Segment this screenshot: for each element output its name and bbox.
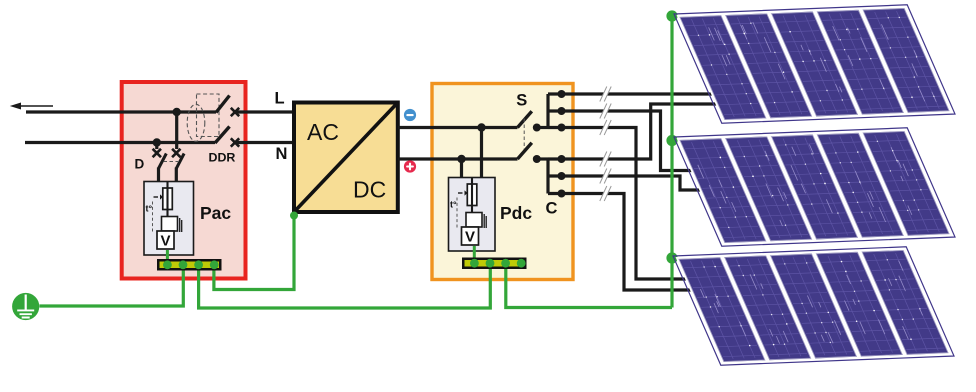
measurement unit Pdc (gray box with fuse and meters) <box>449 178 496 252</box>
breaker D left blade <box>159 154 167 169</box>
branch node string 3 minus <box>558 124 566 132</box>
AC protection enclosure (red box) <box>122 82 246 279</box>
svg-text:C: C <box>546 200 558 218</box>
breaker D right blade <box>176 154 184 169</box>
DDR mechanism (dashed rectangle) <box>197 94 220 137</box>
switch S blade <box>518 111 532 127</box>
DC protection enclosure (orange box) <box>432 84 573 280</box>
DC minus wire from inverter to switch S <box>398 126 518 129</box>
wire drop DC plus to Pdc <box>460 159 463 178</box>
earth wire Pac terminal to inverter chassis <box>214 216 294 290</box>
svg-text:L: L <box>275 90 285 108</box>
thermal sensor t deg with dashed link (Pac) <box>146 194 164 233</box>
fuse F (Pac) <box>163 182 173 219</box>
earth node PV array 1 frame <box>666 10 677 21</box>
terminal dot 2 (Pdc) <box>486 259 495 268</box>
breaker D right pole contact cross <box>172 149 180 157</box>
svg-text:S: S <box>516 92 527 110</box>
earth terminal block (Pac) <box>157 259 222 271</box>
svg-text:AC: AC <box>307 119 339 145</box>
voltmeter V (Pdc) <box>462 227 479 246</box>
branch node string 1 minus <box>558 90 566 98</box>
node on DC minus feeding Pdc <box>477 123 485 131</box>
svg-text:DC: DC <box>353 177 386 203</box>
switch link dashed (S to C) <box>523 119 525 151</box>
fuse F (Pdc) <box>467 178 477 215</box>
wire C node to plus bus <box>537 157 548 160</box>
wire string1 minus to PV array 1 <box>548 92 712 95</box>
earth wire Pac terminal to Pdc terminal <box>199 268 491 308</box>
measurement unit Pac (gray box with fuse and meters) <box>144 182 194 256</box>
wire N (neutral) from grid to DDR switch <box>25 141 215 144</box>
terminal dot 4 (Pac) <box>210 260 219 269</box>
DDR L-pole blade <box>216 96 230 113</box>
wire L from DDR to inverter <box>233 110 296 113</box>
wire drop DC minus to Pdc <box>480 128 483 179</box>
DC plus wire from inverter to switch C <box>398 157 518 160</box>
voltmeter V (Pac) <box>157 231 174 250</box>
wire break mark (//) <box>600 186 611 201</box>
breaker D left pole contact cross <box>153 149 161 157</box>
wire drop from L node to breaker D right pole <box>175 112 178 149</box>
PV array 1 (string of 5 solar modules) <box>674 5 955 123</box>
svg-text:Pdc: Pdc <box>500 203 532 223</box>
branch node string 1 plus <box>558 155 566 163</box>
wire break mark (//) <box>600 120 611 135</box>
PV array 3 (string of 5 solar modules) <box>673 247 954 365</box>
wire L (phase) from grid to DDR switch <box>26 110 216 113</box>
earth terminal block (Pdc) <box>462 258 527 270</box>
green lead V-meter to Pdc terminal <box>473 246 476 259</box>
wire string1 plus: right, up, to PV array 1 <box>548 104 718 159</box>
breaker D mechanical link (dashed) <box>164 161 180 163</box>
wire break mark (//) <box>600 87 611 102</box>
terminal dot 4 (Pdc) <box>517 259 526 268</box>
switch S output node <box>533 124 541 132</box>
grid direction arrow <box>10 103 53 110</box>
green lead V-meter to Pac terminal <box>166 250 169 262</box>
DC minus polarity badge <box>404 109 416 121</box>
wire string3 minus: right, down, to PV array 3 <box>548 128 688 280</box>
terminal dot 1 (Pac) <box>163 260 172 269</box>
wire break mark (//) <box>600 152 611 167</box>
wire string2 plus: right, down, to PV array 2 <box>548 176 702 190</box>
svg-text:N: N <box>276 145 288 163</box>
wire S node to minus bus <box>537 126 548 129</box>
earth wire from electrode to Pac terminal <box>40 268 184 306</box>
svg-text:t°: t° <box>450 200 457 210</box>
svg-text:D: D <box>135 157 145 172</box>
terminal dot 3 (Pac) <box>194 260 203 269</box>
DDR N-pole contact cross <box>231 138 239 146</box>
energy meter upper box (Pdc) <box>466 213 486 229</box>
terminal dot 1 (Pdc) <box>470 259 479 268</box>
switch C blade <box>518 143 532 159</box>
svg-text:DDR: DDR <box>209 151 236 165</box>
inverter chassis earth node <box>290 212 298 220</box>
minus distribution bus (vertical) <box>546 94 549 128</box>
DC plus polarity badge <box>404 160 416 172</box>
DDR N-pole blade <box>215 127 230 144</box>
energy meter upper box (Pac) <box>162 217 182 233</box>
earth wire Pdc terminal to PV frames bus <box>506 266 672 308</box>
branch node string 2 plus <box>558 172 566 180</box>
branch node string 2 minus <box>558 107 566 115</box>
svg-text:t°: t° <box>146 204 153 214</box>
node on L feeding breaker D <box>173 108 181 116</box>
plus distribution bus (vertical) <box>546 159 549 194</box>
wire drop from N node to breaker D left pole <box>155 143 158 150</box>
thermal sensor t deg with dashed link (Pdc) <box>450 190 468 229</box>
switch C output node <box>533 155 541 163</box>
DDR toroid (dashed ellipse) <box>187 104 205 141</box>
wire N from DDR to inverter <box>233 141 296 144</box>
wire from D left blade to Pac unit <box>157 168 160 183</box>
node on DC plus feeding Pdc <box>457 155 465 163</box>
wire from D right blade to Pac unit <box>175 168 178 183</box>
terminal dot 3 (Pdc) <box>501 259 510 268</box>
DDR L-pole contact cross <box>231 108 239 116</box>
earth node PV array 2 frame <box>666 135 677 146</box>
PV frames earth bus (vertical) <box>670 16 673 308</box>
earth electrode symbol <box>12 293 39 320</box>
node on N feeding breaker D <box>153 138 161 146</box>
svg-text:Pac: Pac <box>200 203 231 223</box>
earth node PV array 3 frame <box>666 252 677 263</box>
inverter U1 (AC/DC converter box) <box>294 103 398 213</box>
svg-text:V: V <box>160 233 170 250</box>
branch node string 3 plus <box>558 190 566 198</box>
wire string2 minus: right, down, to PV array 2 <box>548 111 694 171</box>
PV array 2 (string of 5 solar modules) <box>674 128 955 246</box>
svg-text:V: V <box>465 229 475 246</box>
terminal dot 2 (Pac) <box>179 260 188 269</box>
wire string3 plus: right, down, to PV array 3 <box>548 194 692 291</box>
wire break mark (//) <box>600 169 611 184</box>
wire break mark (//) <box>600 104 611 119</box>
